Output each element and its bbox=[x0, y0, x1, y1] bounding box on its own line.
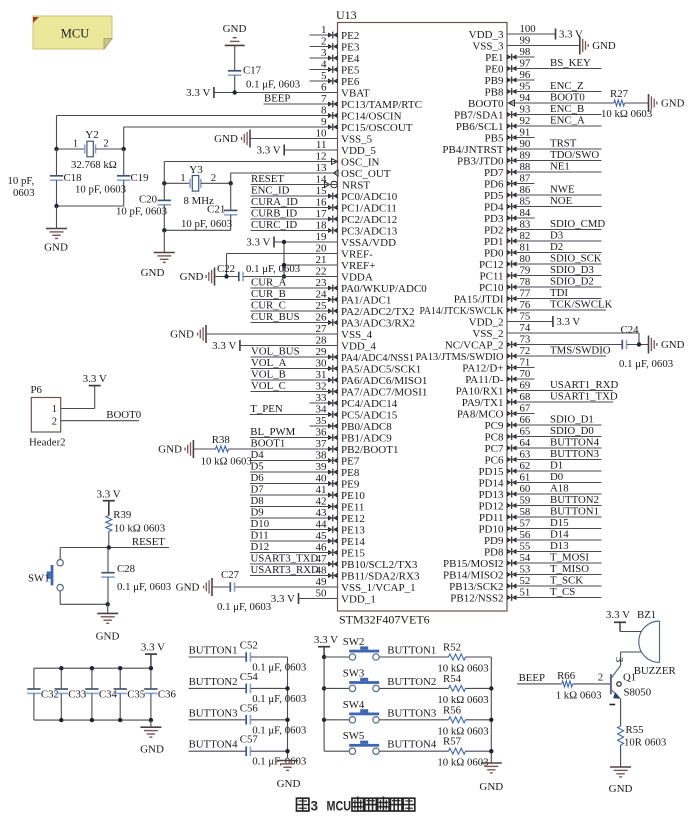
svg-text:10 pF, 0603: 10 pF, 0603 bbox=[116, 206, 167, 218]
svg-text:0.1 μF, 0603: 0.1 μF, 0603 bbox=[246, 79, 300, 91]
svg-text:BUTTON4: BUTTON4 bbox=[387, 739, 437, 751]
svg-text:ENC_ID: ENC_ID bbox=[251, 185, 290, 197]
svg-text:D9: D9 bbox=[251, 507, 264, 519]
svg-text:PC13/TAMP/RTC: PC13/TAMP/RTC bbox=[341, 99, 422, 111]
U13 pin 93 (PB7/SDA1) bbox=[454, 103, 602, 121]
svg-text:PD14: PD14 bbox=[478, 477, 504, 489]
U13 pin 26 (PA3/ADC3/RX2) bbox=[251, 311, 416, 329]
svg-text:VDD_4: VDD_4 bbox=[341, 340, 376, 352]
svg-text:40: 40 bbox=[316, 473, 328, 485]
svg-text:R38: R38 bbox=[212, 434, 230, 446]
svg-text:PE13: PE13 bbox=[341, 524, 365, 536]
svg-text:3: 3 bbox=[613, 657, 624, 662]
svg-text:CUR_C: CUR_C bbox=[251, 300, 286, 312]
svg-text:36: 36 bbox=[316, 427, 328, 439]
svg-text:6: 6 bbox=[321, 82, 327, 94]
svg-text:79: 79 bbox=[520, 265, 531, 277]
svg-text:GND: GND bbox=[223, 23, 247, 35]
svg-text:28: 28 bbox=[316, 335, 328, 347]
svg-text:3: 3 bbox=[311, 799, 319, 814]
U13 pin 6 (VBAT) bbox=[186, 82, 370, 100]
U13 pin 55 (PD8) bbox=[484, 540, 602, 558]
wire switch bank 3.3V bus bbox=[323, 657, 325, 751]
U13 pin 53 (PB14/MISO2) bbox=[443, 563, 602, 581]
svg-text:VOL_A: VOL_A bbox=[251, 357, 287, 369]
svg-text:86: 86 bbox=[520, 184, 531, 196]
svg-text:PB3/JTD0: PB3/JTD0 bbox=[457, 155, 504, 167]
svg-text:GND: GND bbox=[180, 271, 204, 283]
svg-text:PC10: PC10 bbox=[479, 282, 504, 294]
node pin6 VBAT junction bbox=[233, 90, 237, 94]
svg-text:55: 55 bbox=[520, 541, 531, 553]
svg-text:BUTTON4: BUTTON4 bbox=[550, 437, 600, 449]
U13 pin 31 (PA6/ADC6/MISO1) bbox=[251, 369, 428, 387]
svg-text:D13: D13 bbox=[550, 540, 569, 552]
resistor R57 10 kOhm bbox=[437, 736, 491, 769]
switch SW1 bbox=[28, 548, 108, 605]
svg-text:C54: C54 bbox=[240, 671, 259, 683]
svg-text:65: 65 bbox=[520, 426, 531, 438]
ground (SW1/C28) bbox=[96, 604, 120, 642]
svg-text:10 kΩ 0603: 10 kΩ 0603 bbox=[201, 456, 252, 468]
svg-text:0.1 μF, 0603: 0.1 μF, 0603 bbox=[252, 756, 306, 768]
svg-text:BOOT0: BOOT0 bbox=[106, 409, 141, 421]
svg-text:R54: R54 bbox=[443, 673, 462, 685]
U13 pin 88 (PD7) bbox=[484, 161, 602, 179]
U13 pin 63 (PC6) bbox=[485, 448, 602, 466]
svg-text:BOOT0: BOOT0 bbox=[468, 98, 504, 110]
U13 pin 84 (PD3) bbox=[484, 207, 535, 225]
U13 pin 66 (PC9) bbox=[485, 414, 602, 432]
svg-text:GND: GND bbox=[140, 744, 164, 756]
U13 pin 94 (BOOT0) bbox=[468, 92, 531, 110]
wire VREF+ bbox=[284, 264, 338, 266]
svg-text:68: 68 bbox=[520, 391, 531, 403]
U13 pin 65 (PC8) bbox=[485, 425, 602, 443]
switch SW4 bbox=[324, 699, 449, 723]
svg-text:ENC_A: ENC_A bbox=[550, 115, 585, 127]
svg-text:C19: C19 bbox=[131, 172, 149, 184]
svg-text:BUTTON2: BUTTON2 bbox=[189, 676, 238, 688]
svg-text:10R 0603: 10R 0603 bbox=[624, 737, 666, 749]
svg-text:77: 77 bbox=[520, 288, 531, 300]
U13 pin 25 (PA2/ADC2/TX2) bbox=[251, 300, 415, 318]
svg-text:PD3: PD3 bbox=[484, 213, 504, 225]
svg-text:PB9: PB9 bbox=[485, 75, 504, 87]
svg-text:85: 85 bbox=[520, 196, 531, 208]
svg-text:PA14/JTCK/SWCLK: PA14/JTCK/SWCLK bbox=[420, 305, 504, 317]
capacitor C28 bbox=[101, 548, 171, 605]
U13 pin 76 (PA14/JTCK/SWCLK) bbox=[420, 299, 613, 317]
U13 pin 83 (PD2) bbox=[484, 218, 605, 236]
svg-text:SDIO_D0: SDIO_D0 bbox=[550, 425, 594, 437]
svg-text:PB1/ADC9: PB1/ADC9 bbox=[341, 432, 392, 444]
svg-text:Y2: Y2 bbox=[85, 129, 98, 141]
svg-text:15: 15 bbox=[316, 185, 328, 197]
U13 pin 18 (PC3/ADC13) bbox=[251, 219, 398, 237]
svg-text:10 kΩ 0603: 10 kΩ 0603 bbox=[114, 523, 165, 535]
svg-text:D15: D15 bbox=[550, 517, 569, 529]
svg-text:98: 98 bbox=[520, 46, 531, 58]
svg-text:35: 35 bbox=[316, 415, 328, 427]
svg-text:PB14/MISO2: PB14/MISO2 bbox=[443, 569, 504, 581]
svg-text:PA13/JTMS/SWDIO: PA13/JTMS/SWDIO bbox=[416, 351, 504, 363]
svg-text:PA5/ADC5/SCK1: PA5/ADC5/SCK1 bbox=[341, 363, 421, 375]
svg-text:C17: C17 bbox=[243, 65, 262, 77]
svg-text:67: 67 bbox=[520, 403, 531, 415]
transistor Q1 S8050 bbox=[598, 657, 651, 726]
svg-text:78: 78 bbox=[520, 276, 531, 288]
svg-text:PD13: PD13 bbox=[478, 489, 504, 501]
svg-text:VSS_2: VSS_2 bbox=[472, 328, 503, 340]
svg-text:C35: C35 bbox=[127, 689, 145, 701]
svg-text:49: 49 bbox=[316, 576, 328, 588]
svg-text:PB11/SDA2/RX3: PB11/SDA2/RX3 bbox=[341, 570, 420, 582]
svg-text:74: 74 bbox=[520, 322, 531, 334]
svg-text:PB4/JNTRST: PB4/JNTRST bbox=[442, 144, 503, 156]
U13 pin 51 (PB12/NSS2) bbox=[450, 586, 601, 604]
svg-text:GND: GND bbox=[214, 133, 238, 145]
svg-text:PB12/NSS2: PB12/NSS2 bbox=[450, 592, 503, 604]
svg-text:3.3 V: 3.3 V bbox=[212, 340, 236, 352]
wire button caps gnd bus bbox=[287, 657, 289, 759]
svg-text:21: 21 bbox=[316, 254, 327, 266]
U13 pin 15 (PC0/ADC10) bbox=[251, 185, 398, 203]
svg-text:PD11: PD11 bbox=[479, 512, 504, 524]
U13 pin 59 (PD12) bbox=[478, 494, 601, 512]
svg-text:87: 87 bbox=[520, 173, 531, 185]
svg-text:BUTTON1: BUTTON1 bbox=[550, 506, 599, 518]
svg-text:1: 1 bbox=[180, 173, 185, 184]
svg-text:3.3 V: 3.3 V bbox=[256, 145, 280, 157]
resistor R56 10 kOhm bbox=[437, 704, 491, 737]
svg-text:PA12/D+: PA12/D+ bbox=[462, 362, 503, 374]
U13 pin 99 (VSS_3) bbox=[472, 35, 616, 55]
svg-text:PD5: PD5 bbox=[484, 190, 504, 202]
U13 pin 81 (PD0) bbox=[484, 241, 602, 259]
svg-text:TCK/SWCLK: TCK/SWCLK bbox=[550, 299, 613, 311]
svg-text:NE1: NE1 bbox=[550, 161, 570, 173]
ground (C24) bbox=[649, 336, 685, 354]
svg-text:22: 22 bbox=[316, 266, 327, 278]
U13 pin 36 (PB1/ADC9) bbox=[250, 426, 392, 444]
U13 pin 95 (PB8) bbox=[485, 80, 602, 98]
svg-text:13: 13 bbox=[316, 162, 328, 174]
wire switch resistor gnd bus bbox=[490, 657, 492, 763]
svg-text:PE1: PE1 bbox=[485, 52, 503, 64]
svg-text:PC11: PC11 bbox=[479, 270, 503, 282]
svg-text:D11: D11 bbox=[251, 530, 269, 542]
svg-text:GND: GND bbox=[609, 783, 633, 795]
U13 pin 79 (PC11) bbox=[479, 264, 601, 282]
svg-text:PE7: PE7 bbox=[341, 455, 360, 467]
svg-text:97: 97 bbox=[520, 58, 531, 70]
svg-text:OSC_IN: OSC_IN bbox=[341, 156, 380, 168]
svg-text:PC9: PC9 bbox=[485, 420, 504, 432]
svg-text:3.3 V: 3.3 V bbox=[314, 634, 338, 646]
svg-text:41: 41 bbox=[316, 484, 327, 496]
U13 pin 62 (PD15) bbox=[478, 460, 601, 478]
svg-text:89: 89 bbox=[520, 150, 531, 162]
svg-text:C36: C36 bbox=[158, 689, 177, 701]
svg-text:1: 1 bbox=[52, 404, 57, 415]
buzzer BZ1 bbox=[634, 609, 677, 677]
svg-text:PB10/SCL2/TX3: PB10/SCL2/TX3 bbox=[341, 559, 418, 571]
resistor R54 10 kOhm bbox=[437, 673, 491, 706]
svg-text:VBAT: VBAT bbox=[341, 87, 370, 99]
U13 pin 85 (PD4) bbox=[484, 195, 602, 213]
svg-text:BUTTON1: BUTTON1 bbox=[189, 645, 238, 657]
svg-text:58: 58 bbox=[520, 506, 531, 518]
svg-text:C32: C32 bbox=[41, 689, 59, 701]
svg-text:PE9: PE9 bbox=[341, 478, 360, 490]
svg-text:PE5: PE5 bbox=[341, 64, 360, 76]
svg-text:D0: D0 bbox=[550, 471, 563, 483]
U13 pin 98 (PE1) bbox=[485, 46, 534, 64]
capacitor C21 bbox=[181, 183, 237, 230]
svg-text:D7: D7 bbox=[251, 484, 265, 496]
resistor R55 10R bbox=[618, 724, 667, 767]
svg-text:PE8: PE8 bbox=[341, 467, 360, 479]
svg-text:VDD_3: VDD_3 bbox=[469, 29, 504, 41]
svg-text:C56: C56 bbox=[240, 702, 259, 714]
svg-text:59: 59 bbox=[520, 495, 531, 507]
svg-text:P6: P6 bbox=[31, 384, 43, 396]
U13 pin 97 (PE0) bbox=[485, 57, 601, 75]
svg-text:VSS_4: VSS_4 bbox=[341, 329, 373, 341]
wire Y3 bottom bus bbox=[164, 229, 230, 231]
U13 pin 1 (PE2) bbox=[310, 24, 360, 42]
svg-text:D10: D10 bbox=[251, 518, 270, 530]
wire C32 bank top bus bbox=[34, 667, 151, 669]
note corner marker bbox=[33, 17, 39, 23]
wire VSS_2 to C24 node bbox=[507, 333, 639, 345]
svg-text:USART1_RXD: USART1_RXD bbox=[550, 379, 619, 391]
svg-text:C24: C24 bbox=[621, 324, 640, 336]
svg-text:VOL_BUS: VOL_BUS bbox=[251, 346, 300, 358]
svg-text:24: 24 bbox=[316, 289, 328, 301]
U13 pin 23 (PA0/WKUP/ADC0) bbox=[251, 277, 428, 295]
svg-text:C28: C28 bbox=[117, 563, 135, 575]
svg-text:88: 88 bbox=[520, 161, 531, 173]
svg-text:SW2: SW2 bbox=[343, 636, 365, 648]
svg-text:C20: C20 bbox=[139, 194, 157, 206]
U13 pin 57 (PD10) bbox=[478, 517, 601, 535]
capacitor C33 bbox=[55, 668, 87, 720]
svg-text:VREF+: VREF+ bbox=[341, 260, 375, 272]
svg-text:PD4: PD4 bbox=[484, 201, 504, 213]
svg-text:PA2/ADC2/TX2: PA2/ADC2/TX2 bbox=[341, 306, 415, 318]
svg-text:PD9: PD9 bbox=[484, 535, 504, 547]
svg-text:18: 18 bbox=[316, 220, 328, 232]
U13 pin 96 (PB9) bbox=[485, 69, 535, 87]
svg-text:MCU: MCU bbox=[327, 799, 352, 814]
switch SW3 bbox=[324, 667, 449, 691]
svg-text:0603: 0603 bbox=[13, 187, 35, 199]
svg-text:VSS_1/VCAP_1: VSS_1/VCAP_1 bbox=[341, 582, 416, 594]
svg-text:64: 64 bbox=[520, 437, 531, 449]
svg-text:VREF-: VREF- bbox=[341, 248, 373, 260]
svg-text:PC8: PC8 bbox=[485, 431, 504, 443]
svg-text:GND: GND bbox=[661, 339, 685, 351]
U13 pin 86 (PD5) bbox=[484, 184, 602, 202]
svg-text:1 kΩ 0603: 1 kΩ 0603 bbox=[556, 690, 602, 702]
svg-text:SDIO_CMD: SDIO_CMD bbox=[550, 218, 605, 230]
power 3.3 V (R39) bbox=[96, 489, 120, 516]
svg-text:PA1/ADC1: PA1/ADC1 bbox=[341, 294, 391, 306]
U13 pin 17 (PC2/ADC12) bbox=[251, 208, 398, 226]
svg-text:45: 45 bbox=[316, 530, 328, 542]
ground (buzzer) bbox=[609, 767, 633, 795]
U13 pin 44 (PE13) bbox=[250, 518, 365, 536]
U13 pin 35 (PB0/ADC8) bbox=[310, 415, 393, 433]
resistor R66 1 kOhm bbox=[556, 670, 611, 702]
svg-text:R57: R57 bbox=[443, 736, 462, 748]
svg-text:NC/VCAP_2: NC/VCAP_2 bbox=[445, 339, 504, 351]
U13 pin 92 (PB6/SCL1) bbox=[456, 115, 602, 133]
svg-text:R39: R39 bbox=[113, 509, 131, 521]
svg-text:16: 16 bbox=[316, 197, 328, 209]
ground (Y2/C18) bbox=[44, 206, 68, 254]
svg-text:TDO/SWO: TDO/SWO bbox=[550, 149, 599, 161]
svg-text:93: 93 bbox=[520, 104, 531, 116]
capacitor C56 (BUTTON3) bbox=[189, 702, 307, 736]
svg-text:VDD_1: VDD_1 bbox=[341, 593, 376, 605]
U13 pin 8 (PC14/OSCIN) bbox=[57, 105, 402, 123]
U13 pin 49 (VSS_1/VCAP_1) bbox=[316, 576, 416, 594]
svg-text:PA3/ADC3/RX2: PA3/ADC3/RX2 bbox=[341, 317, 415, 329]
capacitor C18 bbox=[8, 149, 82, 206]
wire VREF- loop bbox=[227, 254, 338, 277]
wire 3.3V vertical to VDDA bbox=[283, 242, 285, 277]
svg-text:PA7/ADC7/MOSI1: PA7/ADC7/MOSI1 bbox=[341, 386, 427, 398]
svg-text:PE6: PE6 bbox=[341, 76, 360, 88]
svg-text:50: 50 bbox=[316, 588, 328, 600]
svg-text:44: 44 bbox=[316, 519, 328, 531]
wire OSC_OUT to Y3 bbox=[231, 173, 338, 183]
svg-text:VSSA/VDD: VSSA/VDD bbox=[341, 237, 396, 249]
svg-text:61: 61 bbox=[520, 472, 531, 484]
ground (Y3/C20) bbox=[141, 230, 175, 279]
U13 pin 89 (PB3/JTD0) bbox=[457, 149, 601, 167]
resistor R39 10 kOhm bbox=[106, 509, 165, 548]
svg-text:TDI: TDI bbox=[550, 287, 568, 299]
capacitor C57 (BUTTON4) bbox=[189, 734, 307, 768]
svg-text:PD2: PD2 bbox=[484, 224, 504, 236]
svg-text:11: 11 bbox=[316, 139, 327, 151]
U13 pin 46 (PE15) bbox=[250, 541, 365, 559]
svg-text:37: 37 bbox=[316, 438, 328, 450]
svg-text:CURA_ID: CURA_ID bbox=[251, 196, 298, 208]
U13 pin 9 (PC15/OSCOUT) bbox=[124, 116, 413, 134]
svg-text:T_PEN: T_PEN bbox=[250, 403, 283, 415]
svg-text:56: 56 bbox=[520, 529, 531, 541]
svg-text:4: 4 bbox=[321, 59, 327, 71]
U13 pin 10 (VSS_5) bbox=[214, 128, 373, 148]
capacitor C19 bbox=[75, 149, 149, 206]
svg-text:10 kΩ 0603: 10 kΩ 0603 bbox=[601, 108, 652, 120]
svg-text:BUTTON2: BUTTON2 bbox=[550, 494, 599, 506]
svg-text:53: 53 bbox=[520, 564, 531, 576]
svg-text:D5: D5 bbox=[251, 461, 264, 473]
svg-text:SDIO_D2: SDIO_D2 bbox=[550, 276, 594, 288]
svg-text:PB13/SCK2: PB13/SCK2 bbox=[449, 581, 503, 593]
ground (R38) bbox=[158, 440, 193, 458]
svg-text:Q1: Q1 bbox=[623, 672, 636, 684]
svg-text:PE11: PE11 bbox=[341, 501, 364, 513]
svg-text:CURC_ID: CURC_ID bbox=[251, 219, 297, 231]
svg-text:C27: C27 bbox=[221, 569, 240, 581]
svg-text:SDIO_D1: SDIO_D1 bbox=[550, 414, 594, 426]
U13 pin 2 (PE3) bbox=[310, 36, 360, 54]
svg-text:R55: R55 bbox=[626, 724, 644, 736]
U13 pin 7 (PC13/TAMP/RTC) bbox=[264, 93, 422, 111]
annotation note MCU bbox=[33, 16, 112, 49]
svg-text:VSS_3: VSS_3 bbox=[472, 40, 504, 52]
svg-text:PC1/ADC11: PC1/ADC11 bbox=[341, 202, 397, 214]
svg-text:C34: C34 bbox=[99, 689, 118, 701]
U13 pin 50 (VDD_1) bbox=[271, 588, 376, 606]
svg-text:PA4/ADC4/NSS1: PA4/ADC4/NSS1 bbox=[341, 352, 414, 364]
U13 pin 40 (PE9) bbox=[250, 472, 360, 490]
U13 pin 4 (PE5) bbox=[310, 59, 360, 77]
U13 pin 68 (PA9/TX1) bbox=[462, 391, 618, 409]
crystal Y3 8 MHz bbox=[164, 164, 230, 207]
U13 pin 11 (VDD_5) bbox=[256, 139, 376, 157]
svg-text:57: 57 bbox=[520, 518, 531, 530]
svg-text:92: 92 bbox=[520, 115, 531, 127]
svg-text:ENC_Z: ENC_Z bbox=[550, 80, 584, 92]
svg-text:10: 10 bbox=[316, 128, 328, 140]
svg-text:R52: R52 bbox=[443, 642, 461, 654]
crystal Y2 32.768 kHz bbox=[57, 129, 124, 171]
svg-text:R56: R56 bbox=[443, 704, 462, 716]
svg-text:BEEP: BEEP bbox=[264, 93, 290, 105]
svg-text:PC3/ADC13: PC3/ADC13 bbox=[341, 225, 398, 237]
svg-text:0.1 μF, 0603: 0.1 μF, 0603 bbox=[252, 662, 306, 674]
capacitor C17 bbox=[228, 45, 300, 92]
svg-text:73: 73 bbox=[520, 334, 531, 346]
U13 pin 56 (PD9) bbox=[484, 529, 602, 547]
svg-text:63: 63 bbox=[520, 449, 531, 461]
svg-text:PD0: PD0 bbox=[484, 247, 504, 259]
U13 pin 13 (OSC_OUT) bbox=[231, 162, 391, 180]
svg-text:51: 51 bbox=[520, 587, 531, 599]
svg-text:0.1 μF, 0603: 0.1 μF, 0603 bbox=[117, 581, 171, 593]
svg-text:D6: D6 bbox=[251, 472, 265, 484]
svg-text:PD8: PD8 bbox=[484, 546, 504, 558]
svg-text:C18: C18 bbox=[64, 172, 82, 184]
capacitor C35 bbox=[114, 668, 146, 720]
svg-text:PD6: PD6 bbox=[484, 178, 504, 190]
svg-text:2: 2 bbox=[598, 673, 603, 684]
wire C32 bank bottom bus bbox=[34, 719, 151, 721]
svg-text:U13: U13 bbox=[336, 8, 357, 22]
svg-text:SW3: SW3 bbox=[343, 667, 365, 679]
svg-text:91: 91 bbox=[520, 127, 531, 139]
svg-text:PD10: PD10 bbox=[478, 523, 504, 535]
svg-text:USART3_RXD: USART3_RXD bbox=[251, 564, 320, 576]
U13 pin 33 (PC4/ADC14) bbox=[310, 392, 398, 410]
svg-text:PC0/ADC10: PC0/ADC10 bbox=[341, 191, 398, 203]
U13 pin 72 (PA13/JTMS/SWDIO) bbox=[416, 345, 611, 363]
caption 图3 MCU电路控制图 bbox=[297, 796, 415, 813]
svg-text:BUTTON2: BUTTON2 bbox=[387, 676, 436, 688]
svg-text:STM32F407VET6: STM32F407VET6 bbox=[339, 613, 430, 627]
svg-text:PE4: PE4 bbox=[341, 53, 360, 65]
svg-text:GND: GND bbox=[277, 778, 301, 790]
svg-text:PE15: PE15 bbox=[341, 547, 365, 559]
